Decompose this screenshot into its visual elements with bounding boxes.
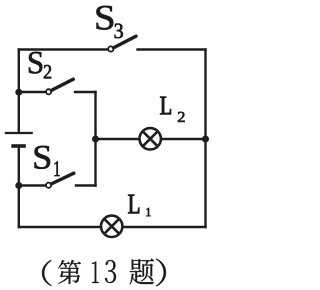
caption digit 3 <box>105 260 116 283</box>
label S1 subscript 1 <box>55 161 60 176</box>
wire: S1 branch from left-rail node to switch S1 <box>19 184 45 186</box>
label S1 <box>35 146 50 169</box>
switch S2 lever arm (open) <box>51 79 73 90</box>
label S3 subscript 3 <box>115 24 123 39</box>
label L1 <box>128 195 139 214</box>
wire: right rail <box>204 50 206 228</box>
wire: left rail lower section (battery to bottom-left corner) <box>18 148 20 228</box>
junction node on left rail at S1 branch <box>15 182 22 189</box>
wire: S1 contact segment <box>76 184 96 186</box>
caption open parenthesis <box>42 260 52 286</box>
label L2 <box>160 97 171 114</box>
battery B1 positive plate (long) <box>5 132 33 134</box>
switch S1 hinge circle <box>46 183 51 188</box>
junction node on right rail at L2 branch <box>202 136 209 143</box>
switch S3 hinge circle <box>108 46 113 51</box>
lamp L1 symbol (circle with X) <box>101 216 122 237</box>
caption digit 1 <box>92 262 99 284</box>
wire: lamp L2 branch right section (L2 to right-rail node) <box>162 138 206 140</box>
caption character 题 <box>130 259 154 285</box>
switch S1 lever arm (open) <box>51 173 73 184</box>
battery B1 negative plate (short thick) <box>11 144 25 148</box>
wire: bottom rail (right of lamp L1) <box>123 226 205 228</box>
label S2 <box>29 52 42 74</box>
wire: S2 contact segment to corner <box>75 91 96 93</box>
wire: lamp L2 branch left section (node B to L2) <box>96 138 139 140</box>
caption character 第 <box>58 260 81 284</box>
switch S2 hinge circle <box>46 89 51 94</box>
junction node B (middle vertical meets L2 branch) <box>92 136 99 143</box>
label S3 <box>97 6 114 30</box>
wire: top rail right section (S3 contact to top-right corner) <box>138 48 206 50</box>
wire: middle vertical from S2 corner through node B down to S1 contact corner <box>94 92 96 186</box>
lamp L2 symbol (circle with X) <box>140 128 161 149</box>
label S2 subscript 2 <box>44 65 51 78</box>
label L2 subscript 2 <box>178 112 185 122</box>
wire: left rail upper section (top-left corner to battery) <box>18 50 20 132</box>
wire: bottom rail (left of lamp L1) <box>19 226 100 228</box>
switch S3 lever arm (open) <box>114 36 136 48</box>
wire: top rail left section (battery+ to switch S3 hinge) <box>19 48 108 50</box>
junction node on left rail at S2 branch <box>15 89 22 96</box>
caption close parenthesis <box>156 259 166 287</box>
label L1 subscript 1 <box>147 208 151 216</box>
wire: S2 branch from left-rail node to switch S2 <box>19 91 45 93</box>
